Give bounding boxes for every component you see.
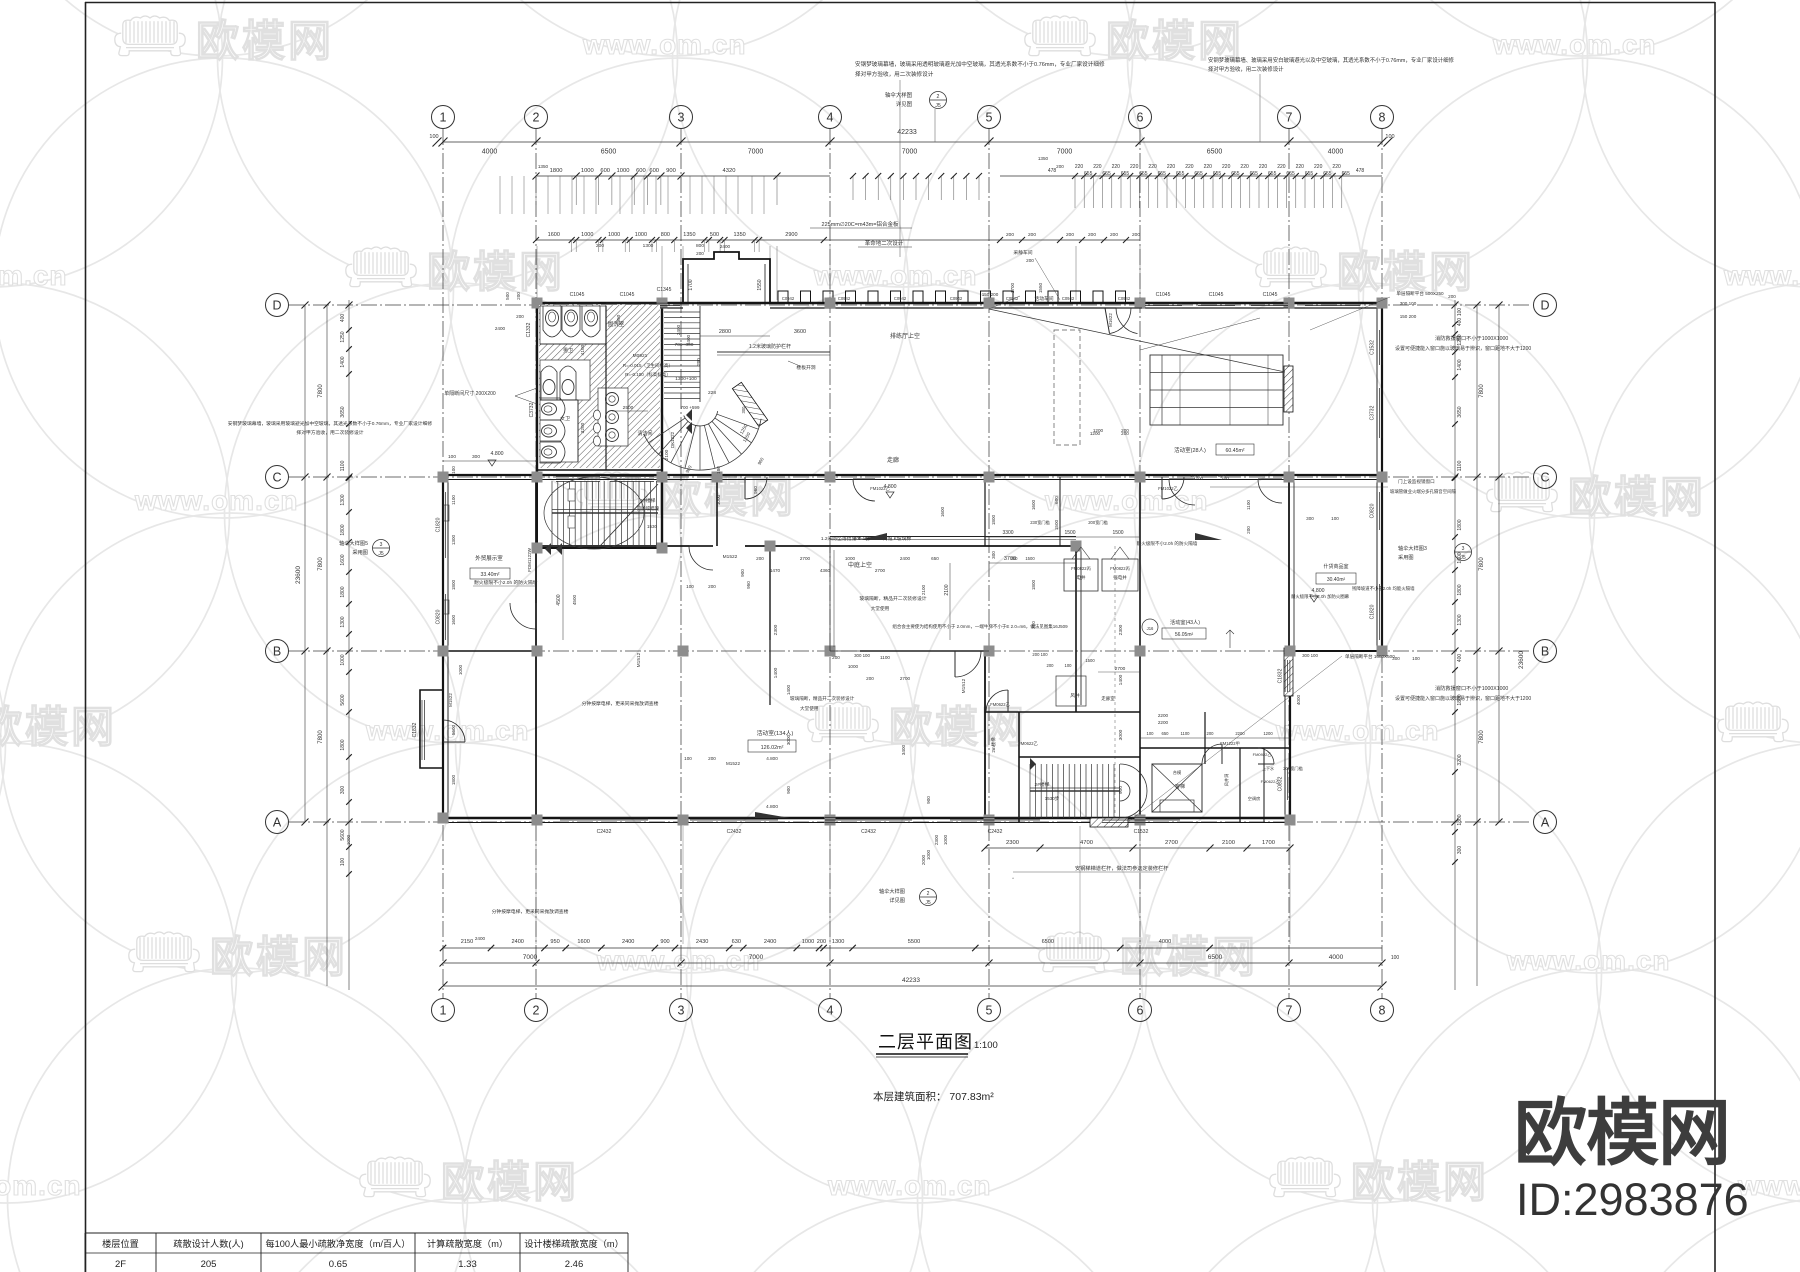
svg-text:1300: 1300 [451, 534, 456, 545]
svg-text:100: 100 [1391, 955, 1400, 961]
svg-text:FM0922乙: FM0922乙 [1253, 751, 1272, 757]
svg-text:1350: 1350 [683, 232, 695, 238]
svg-text:1: 1 [440, 1004, 447, 1018]
svg-text:3200: 3200 [1457, 754, 1463, 765]
svg-text:大堂使用: 大堂使用 [871, 605, 890, 612]
svg-text:33.40m²: 33.40m² [480, 572, 499, 578]
svg-text:230宽门槛: 230宽门槛 [1030, 519, 1050, 526]
svg-text:900: 900 [926, 796, 931, 804]
svg-text:采静车间: 采静车间 [1013, 249, 1032, 256]
svg-text:4.800: 4.800 [491, 451, 504, 457]
svg-text:42233: 42233 [902, 977, 920, 984]
svg-text:200: 200 [1246, 526, 1251, 534]
svg-text:2100: 2100 [1222, 840, 1235, 846]
svg-text:655: 655 [1121, 171, 1130, 177]
svg-text:100: 100 [429, 134, 438, 140]
svg-text:7800: 7800 [318, 557, 324, 571]
svg-text:1800: 1800 [991, 514, 996, 525]
svg-text:C0942: C0942 [1118, 296, 1131, 301]
svg-text:2700: 2700 [1165, 840, 1178, 846]
svg-text:300: 300 [1457, 846, 1463, 855]
svg-text:C: C [272, 471, 281, 485]
svg-text:C0942: C0942 [950, 296, 963, 301]
svg-text:800: 800 [661, 232, 670, 238]
svg-text:C: C [1540, 471, 1549, 485]
svg-text:消防救援窗口不小于1000X1000: 消防救援窗口不小于1000X1000 [1435, 334, 1508, 342]
castellated window row [778, 291, 788, 303]
svg-text:C2432: C2432 [861, 829, 876, 835]
svg-text:采用图: 采用图 [352, 549, 368, 556]
svg-text:耐火极限不小2.0h 的防火隔墙: 耐火极限不小2.0h 的防火隔墙 [474, 579, 538, 586]
svg-text:C1045: C1045 [1263, 292, 1278, 298]
svg-text:活动室(43人): 活动室(43人) [1170, 618, 1200, 626]
svg-text:655: 655 [1323, 171, 1332, 177]
watermark logos [115, 16, 334, 66]
svg-text:150 200: 150 200 [1400, 314, 1417, 319]
svg-text:1600: 1600 [577, 939, 589, 945]
svg-text:5500: 5500 [908, 939, 920, 945]
stair 3 [1029, 764, 1031, 818]
svg-text:1100: 1100 [1457, 460, 1463, 471]
svg-text:1800: 1800 [340, 524, 346, 535]
svg-text:4500: 4500 [572, 594, 577, 605]
svg-text:4320: 4320 [723, 168, 736, 174]
windows right wall [1376, 330, 1378, 365]
corridor doors [689, 546, 713, 570]
svg-text:900: 900 [786, 786, 791, 794]
svg-text:2400: 2400 [720, 244, 731, 249]
svg-text:1800: 1800 [451, 579, 456, 590]
right dimension chains [1498, 305, 1500, 822]
windows left wall [442, 492, 444, 558]
svg-text:200: 200 [1006, 232, 1014, 238]
bay window top [683, 252, 770, 303]
svg-text:分钟按摩电梯，更采同采抛放调查楼: 分钟按摩电梯，更采同采抛放调查楼 [492, 908, 569, 915]
svg-text:200: 200 [1047, 663, 1055, 668]
toilet fixtures [540, 306, 606, 344]
svg-text:200: 200 [817, 939, 826, 945]
svg-text:200: 200 [696, 251, 704, 256]
svg-text:C1332: C1332 [526, 322, 532, 337]
svg-text:1000: 1000 [608, 232, 620, 238]
svg-text:1800: 1800 [451, 774, 456, 785]
svg-text:疏散设计人数(人): 疏散设计人数(人) [173, 1238, 243, 1249]
svg-text:安钢梯梯道栏杆，做法司参选定装修栏杆: 安钢梯梯道栏杆，做法司参选定装修栏杆 [1075, 864, 1168, 872]
svg-text:4360: 4360 [820, 568, 831, 573]
svg-text:6500: 6500 [1208, 954, 1223, 961]
svg-text:220: 220 [1240, 164, 1249, 170]
svg-text:风井: 风井 [1070, 692, 1080, 699]
svg-text:3650: 3650 [340, 406, 346, 417]
svg-text:6500: 6500 [1042, 939, 1054, 945]
svg-text:200: 200 [696, 358, 701, 366]
svg-text:M1522: M1522 [726, 761, 740, 766]
svg-text:1530: 1530 [647, 524, 658, 529]
svg-text:2300: 2300 [773, 624, 779, 635]
svg-text:C1832: C1832 [412, 722, 418, 737]
svg-text:革命地二次设计: 革命地二次设计 [865, 239, 904, 247]
svg-text:3650: 3650 [1457, 406, 1463, 417]
svg-text:择对甲方验收，用二次装修设计: 择对甲方验收，用二次装修设计 [296, 429, 363, 436]
svg-text:单层隔断平台 500X250: 单层隔断平台 500X250 [1396, 290, 1444, 297]
svg-text:100: 100 [451, 466, 456, 474]
svg-text:1350: 1350 [1038, 156, 1049, 161]
svg-text:C3732: C3732 [529, 402, 535, 417]
svg-text:C1532: C1532 [1370, 340, 1376, 355]
svg-text:180: 180 [716, 466, 721, 474]
svg-text:200宽门槛: 200宽门槛 [1283, 765, 1303, 772]
svg-text:中庭上空: 中庭上空 [848, 561, 872, 569]
svg-text:220: 220 [1259, 164, 1268, 170]
svg-text:M0921: M0921 [633, 353, 648, 359]
svg-text:1700: 1700 [1010, 282, 1015, 293]
svg-text:7000: 7000 [523, 954, 538, 961]
svg-text:2300: 2300 [1118, 624, 1124, 635]
svg-text:655: 655 [1342, 171, 1351, 177]
svg-text:1000: 1000 [802, 939, 814, 945]
top dimension chain overall [443, 141, 1382, 143]
svg-text:200: 200 [1218, 473, 1226, 478]
svg-text:23600: 23600 [1518, 651, 1525, 669]
svg-text:228: 228 [708, 390, 716, 396]
toilet block hatch [539, 305, 660, 468]
svg-text:M1522: M1522 [723, 554, 738, 560]
svg-text:220: 220 [1332, 164, 1341, 170]
svg-text:200: 200 [756, 556, 764, 561]
svg-text:3000: 3000 [1118, 729, 1124, 740]
svg-text:1350: 1350 [733, 232, 745, 238]
svg-text:1800: 1800 [1457, 519, 1463, 530]
svg-text:300 100: 300 100 [1400, 301, 1417, 306]
svg-text:B: B [273, 645, 281, 659]
svg-text:655: 655 [1213, 171, 1222, 177]
svg-text:400: 400 [1457, 318, 1463, 327]
svg-text:200: 200 [1121, 428, 1129, 433]
svg-text:2200: 2200 [1235, 731, 1245, 736]
svg-text:478: 478 [1048, 168, 1057, 174]
svg-text:2700: 2700 [900, 676, 911, 681]
svg-text:300 100: 300 100 [1302, 653, 1318, 658]
svg-text:1470: 1470 [770, 568, 781, 573]
svg-text:200: 200 [708, 584, 716, 589]
grid lines horizontal [289, 304, 1532, 306]
svg-text:1700: 1700 [1262, 840, 1275, 846]
svg-text:C0942: C0942 [1006, 296, 1019, 301]
svg-text:C0820: C0820 [1370, 503, 1376, 518]
svg-text:220: 220 [1167, 164, 1176, 170]
svg-text:合模: 合模 [1173, 769, 1182, 776]
svg-text:轴伞大样图3: 轴伞大样图3 [1398, 544, 1427, 552]
svg-text:1.33: 1.33 [458, 1259, 477, 1270]
svg-text:2900: 2900 [785, 232, 797, 238]
svg-text:4.800: 4.800 [766, 756, 778, 761]
svg-text:655: 655 [1102, 171, 1111, 177]
svg-text:220: 220 [1075, 164, 1084, 170]
svg-text:950: 950 [550, 939, 559, 945]
svg-text:8: 8 [1379, 111, 1386, 125]
svg-text:1000: 1000 [943, 834, 948, 845]
svg-text:每100人最小疏散净宽度（m/百人）: 每100人最小疏散净宽度（m/百人） [266, 1238, 411, 1249]
svg-text:100: 100 [448, 454, 456, 460]
svg-text:220: 220 [1130, 164, 1139, 170]
svg-text:300: 300 [741, 406, 746, 414]
svg-text:950: 950 [746, 581, 751, 589]
svg-text:1600: 1600 [548, 232, 560, 238]
svg-text:单隔断间尺寸 200X200: 单隔断间尺寸 200X200 [444, 390, 496, 397]
svg-text:1300+100: 1300+100 [675, 376, 697, 382]
svg-text:门上设监视镜窗口: 门上设监视镜窗口 [1398, 478, 1435, 485]
svg-text:1000: 1000 [581, 168, 594, 174]
stair 2 curved [664, 311, 700, 313]
svg-text:1990: 1990 [616, 314, 622, 325]
svg-text:FM0622乙: FM0622乙 [990, 701, 1010, 707]
svg-text:7000: 7000 [748, 149, 764, 156]
svg-text:C0820: C0820 [436, 609, 442, 624]
svg-text:J5: J5 [1460, 555, 1466, 561]
svg-text:C1045: C1045 [620, 292, 635, 298]
svg-text:耐火极限不小2.0h 加防火圈幕: 耐火极限不小2.0h 加防火圈幕 [1291, 593, 1350, 600]
svg-text:3600: 3600 [794, 329, 806, 335]
hatched wall segments [1284, 366, 1293, 412]
svg-text:100: 100 [1147, 731, 1155, 736]
svg-text:择对甲方验收，用二次装修设计: 择对甲方验收，用二次装修设计 [1208, 65, 1284, 73]
svg-text:1200: 1200 [1190, 473, 1201, 478]
svg-text:7800: 7800 [1479, 557, 1485, 571]
svg-text:安钢梦玻璃幕墙，玻璃采用玻璃避光加中空玻璃，其透光系数不小于: 安钢梦玻璃幕墙，玻璃采用玻璃避光加中空玻璃，其透光系数不小于0.76mm，专业厂… [228, 420, 433, 427]
svg-text:C1820: C1820 [436, 517, 442, 532]
svg-text:2F: 2F [115, 1259, 126, 1270]
svg-text:4: 4 [827, 1004, 834, 1018]
svg-text:655: 655 [1305, 171, 1314, 177]
svg-text:1#楼梯: 1#楼梯 [641, 497, 656, 504]
svg-text:2100: 2100 [944, 584, 950, 595]
svg-text:1200: 1200 [1263, 731, 1273, 736]
svg-text:走廊室: 走廊室 [1101, 695, 1115, 702]
svg-text:1600: 1600 [1031, 499, 1036, 510]
svg-text:100: 100 [1331, 516, 1339, 521]
svg-text:2400: 2400 [511, 939, 523, 945]
svg-text:100: 100 [686, 584, 694, 589]
svg-text:200: 200 [1448, 294, 1456, 299]
svg-text:1000: 1000 [581, 232, 593, 238]
svg-text:4000: 4000 [1159, 939, 1171, 945]
svg-text:4: 4 [827, 111, 834, 125]
elevator [1152, 764, 1202, 812]
svg-text:150 200: 150 200 [982, 292, 999, 297]
top dimension chain 3 [536, 239, 1140, 241]
svg-text:2500: 2500 [623, 405, 634, 411]
svg-text:220: 220 [1148, 164, 1157, 170]
svg-text:1400: 1400 [340, 356, 346, 367]
svg-text:见防噪措施: 见防噪措施 [637, 505, 660, 512]
svg-text:126.02m²: 126.02m² [761, 745, 784, 751]
svg-text:2200: 2200 [1158, 713, 1169, 718]
svg-text:A: A [1541, 816, 1550, 830]
svg-text:220: 220 [1185, 164, 1194, 170]
svg-text:残障坡道不小于2.0h 均能火隔墙: 残障坡道不小于2.0h 均能火隔墙 [1352, 585, 1415, 592]
svg-text:1: 1 [440, 111, 447, 125]
hall void diagonal [989, 309, 1285, 372]
svg-text:C0942: C0942 [782, 296, 795, 301]
svg-text:楼层位置: 楼层位置 [102, 1238, 139, 1249]
svg-text:655: 655 [1268, 171, 1277, 177]
svg-text:300: 300 [472, 454, 480, 460]
svg-text:2400: 2400 [622, 939, 634, 945]
svg-text:220: 220 [1204, 164, 1213, 170]
svg-text:200: 200 [708, 756, 716, 761]
svg-text:800: 800 [696, 243, 704, 249]
svg-text:D: D [272, 299, 281, 313]
svg-text:3: 3 [1462, 546, 1465, 552]
svg-text:2400: 2400 [900, 556, 911, 561]
svg-text:强电井: 强电井 [1113, 574, 1127, 581]
svg-text:3000: 3000 [786, 734, 791, 745]
svg-text:耐火极限不小2.0h 的防火隔墙: 耐火极限不小2.0h 的防火隔墙 [1137, 540, 1198, 547]
svg-text:活动车间: 活动车间 [1034, 295, 1053, 302]
svg-text:M1622: M1622 [1108, 313, 1113, 327]
svg-text:2700: 2700 [800, 556, 811, 561]
svg-text:2700: 2700 [875, 568, 886, 573]
svg-text:2300: 2300 [1006, 840, 1019, 846]
svg-text:1500: 1500 [1025, 556, 1035, 561]
svg-text:3200: 3200 [580, 422, 586, 433]
svg-text:什货商品室: 什货商品室 [1323, 563, 1348, 570]
svg-text:C2432: C2432 [988, 829, 1003, 835]
svg-text:7000: 7000 [749, 954, 764, 961]
svg-text:23600: 23600 [295, 566, 302, 584]
svg-text:30.40m²: 30.40m² [1327, 577, 1346, 583]
corridor wall [443, 474, 1382, 476]
svg-text:排练厅上空: 排练厅上空 [890, 332, 920, 340]
svg-text:300: 300 [340, 786, 346, 795]
svg-text:2100: 2100 [664, 449, 670, 460]
svg-text:225mm∅20C=m43m=铝合金板: 225mm∅20C=m43m=铝合金板 [822, 220, 899, 228]
svg-text:轴伞大样图: 轴伞大样图 [885, 91, 912, 99]
svg-text:220: 220 [1314, 164, 1323, 170]
svg-text:1300: 1300 [832, 939, 844, 945]
svg-text:2000: 2000 [921, 854, 926, 865]
svg-text:7: 7 [1286, 1004, 1293, 1018]
svg-text:2100: 2100 [921, 584, 926, 595]
svg-text:2200: 2200 [1158, 720, 1169, 725]
svg-text:200 100: 200 100 [1032, 652, 1048, 657]
svg-text:1.2米玻璃防护栏杆: 1.2米玻璃防护栏杆 [749, 343, 791, 350]
svg-text:C0942: C0942 [838, 296, 851, 301]
stair 1 walls [536, 477, 538, 548]
bottom exterior wall [443, 817, 1290, 819]
svg-text:1550: 1550 [757, 279, 763, 290]
svg-text:220: 220 [1112, 164, 1121, 170]
left exterior wall [442, 477, 444, 820]
svg-text:活动室(28人): 活动室(28人) [1174, 446, 1206, 454]
drawing frame [85, 2, 1715, 4]
exterior walls [537, 302, 1382, 305]
top dimension chain 2 [536, 175, 830, 177]
svg-text:6: 6 [1137, 1004, 1144, 1018]
svg-text:100: 100 [1065, 663, 1073, 668]
svg-text:655: 655 [1176, 171, 1185, 177]
svg-text:1600: 1600 [340, 554, 346, 565]
double door M1622 [1110, 308, 1132, 334]
svg-text:安钢梦玻璃幕墙，玻璃采用透明玻璃避光加中空玻璃，其透光系数不: 安钢梦玻璃幕墙，玻璃采用透明玻璃避光加中空玻璃，其透光系数不小于0.76mm，专… [855, 60, 1105, 68]
svg-text:3300: 3300 [1002, 530, 1013, 536]
svg-text:7800: 7800 [1479, 730, 1485, 744]
bottom dimension chains [985, 847, 1290, 849]
svg-text:2: 2 [927, 891, 930, 897]
svg-text:组合会主要使为结构使用不小于 2.0mm，一端牛梯不小于E: 组合会主要使为结构使用不小于 2.0mm，一端牛梯不小于E 2.0=m6，做法见… [892, 623, 1068, 630]
svg-text:6500: 6500 [1207, 149, 1223, 156]
svg-text:300: 300 [1031, 621, 1036, 629]
svg-text:900: 900 [1118, 786, 1124, 794]
svg-text:1100: 1100 [340, 460, 346, 471]
svg-text:7000: 7000 [1057, 149, 1073, 156]
svg-text:2.46: 2.46 [565, 1259, 584, 1270]
svg-text:1100: 1100 [880, 655, 890, 660]
svg-text:欧模网: 欧模网 [1514, 1093, 1730, 1174]
svg-text:J5: J5 [935, 103, 941, 109]
svg-text:1800: 1800 [1457, 814, 1463, 825]
svg-text:205: 205 [201, 1259, 217, 1270]
svg-text:400: 400 [340, 314, 346, 323]
svg-text:200: 200 [1132, 232, 1140, 238]
svg-text:200: 200 [1066, 232, 1074, 238]
svg-text:3: 3 [380, 542, 383, 548]
left dimension chains [304, 305, 306, 822]
svg-text:200: 200 [516, 292, 521, 300]
svg-text:655: 655 [1084, 171, 1093, 177]
svg-text:J5: J5 [925, 900, 931, 906]
svg-text:男卫: 男卫 [563, 348, 573, 354]
top dense tick cluster [1000, 175, 1382, 177]
svg-text:2400: 2400 [475, 936, 486, 941]
svg-text:C2432: C2432 [597, 829, 612, 835]
windows bottom wall [560, 817, 648, 819]
svg-text:1400: 1400 [1457, 359, 1463, 370]
svg-text:220: 220 [1093, 164, 1102, 170]
svg-text:56.05m²: 56.05m² [1175, 632, 1194, 638]
svg-text:1800: 1800 [1457, 584, 1463, 595]
svg-text:200: 200 [1026, 258, 1034, 263]
svg-text:1700: 1700 [688, 279, 694, 290]
svg-text:400: 400 [1457, 654, 1463, 663]
svg-text:1400: 1400 [773, 667, 779, 678]
svg-text:200: 200 [516, 314, 524, 319]
svg-text:J5: J5 [378, 551, 384, 557]
svg-text:D: D [1540, 299, 1549, 313]
svg-text:FDM1122W: FDM1122W [527, 547, 532, 571]
svg-text:0.65: 0.65 [329, 1259, 348, 1270]
svg-text:2: 2 [533, 111, 540, 125]
svg-text:DK1222: DK1222 [670, 431, 675, 448]
svg-text:8: 8 [1379, 1004, 1386, 1018]
svg-text:4000: 4000 [482, 149, 498, 156]
svg-text:5600: 5600 [451, 724, 456, 735]
svg-text:600: 600 [1054, 496, 1059, 504]
svg-text:1600: 1600 [451, 614, 456, 625]
svg-text:2: 2 [937, 94, 940, 100]
svg-text:电井: 电井 [1077, 574, 1086, 581]
axis bubbles columns [432, 106, 455, 129]
svg-text:大堂使用: 大堂使用 [800, 705, 819, 712]
svg-text:1800: 1800 [340, 739, 346, 750]
svg-text:M1522: M1522 [448, 693, 453, 707]
svg-text:择对甲方验收，用二次装修设计: 择对甲方验收，用二次装修设计 [855, 70, 934, 78]
svg-text:655: 655 [1139, 171, 1148, 177]
grid lines vertical [442, 129, 444, 998]
svg-text:6500: 6500 [601, 149, 617, 156]
svg-text:设置可便捷能入窗口施以玻璃易于辨识，窗口距地不大于1200: 设置可便捷能入窗口施以玻璃易于辨识，窗口距地不大于1200 [1395, 345, 1531, 352]
svg-text:700 +599: 700 +599 [681, 405, 700, 410]
